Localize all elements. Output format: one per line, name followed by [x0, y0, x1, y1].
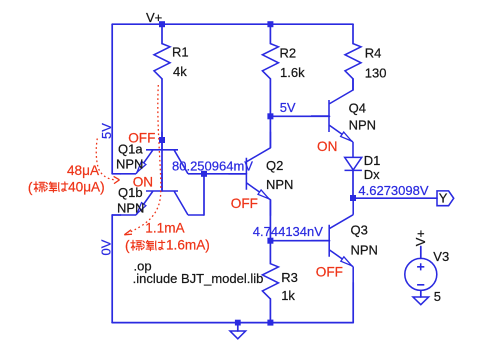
- output flag Y: [437, 191, 454, 206]
- svg-text:130: 130: [365, 66, 387, 81]
- wire R4 bottom lead: [352, 79, 354, 90]
- transistor Q3: [311, 199, 353, 283]
- kanji jun: [46, 182, 57, 192]
- svg-text:.include BJT_model.lib: .include BJT_model.lib: [133, 271, 264, 286]
- wire left input A (5V) vertical: [111, 24, 113, 174]
- svg-text:R3: R3: [281, 270, 298, 285]
- resistor R1: [154, 44, 170, 79]
- ground (V3): [413, 297, 429, 305]
- svg-text:V+: V+: [146, 10, 162, 25]
- svg-text:40μA): 40μA): [68, 180, 105, 195]
- wire ground bottom rail: [112, 322, 353, 324]
- resistor R4: [345, 44, 361, 79]
- wire Q2 emitter down to node: [269, 200, 271, 241]
- svg-text:OFF: OFF: [231, 196, 258, 211]
- transistor Q1a: [120, 132, 204, 174]
- svg-text:1.1mA: 1.1mA: [145, 221, 185, 236]
- svg-text:(: (: [28, 180, 33, 195]
- svg-text:4.744134nV: 4.744134nV: [253, 224, 323, 239]
- svg-text:D1: D1: [364, 153, 381, 168]
- wire Q3 emitter down: [352, 283, 354, 323]
- resistor R3: [262, 264, 278, 299]
- svg-text:NPN: NPN: [117, 200, 144, 215]
- node junction D1/Y/Q3 collector: [350, 195, 356, 201]
- node junction R2/Q2/Q4: [267, 113, 273, 119]
- wire R2 bottom lead to node: [269, 79, 271, 117]
- svg-text:48μA: 48μA: [67, 163, 100, 178]
- svg-text:5: 5: [434, 289, 441, 304]
- svg-text:5V: 5V: [99, 123, 114, 139]
- wire R3 top lead: [269, 241, 271, 264]
- svg-text:4k: 4k: [173, 64, 187, 79]
- wire D1 cathode to output node: [352, 170, 354, 199]
- svg-text:5V: 5V: [280, 100, 296, 115]
- svg-text:NPN: NPN: [116, 157, 143, 172]
- transistor Q2: [228, 132, 270, 216]
- node junction V+/R2: [267, 21, 273, 27]
- svg-text:R2: R2: [280, 46, 297, 61]
- wire R4 top lead: [352, 24, 354, 43]
- node junction gnd tap: [235, 320, 241, 326]
- svg-text:1.6mA): 1.6mA): [166, 238, 210, 253]
- svg-text:(: (: [125, 238, 130, 253]
- kana ha: [156, 240, 165, 250]
- svg-text:R4: R4: [365, 46, 382, 61]
- svg-text:80.250964mV: 80.250964mV: [172, 159, 253, 174]
- wire Q1b emitter to input B: [112, 214, 120, 216]
- svg-text:R1: R1: [172, 45, 189, 60]
- node junction Q1 collectors: [201, 171, 207, 177]
- wire node to Q3 base: [270, 240, 329, 242]
- svg-text:0V: 0V: [98, 239, 113, 255]
- node junction Q2e/R3/Q3 base: [267, 238, 273, 244]
- svg-text:Q4: Q4: [349, 101, 366, 116]
- wire V+ top rail: [112, 23, 353, 25]
- dotted arrow base current 1.1mA: [128, 85, 161, 233]
- wire R3 bottom lead: [269, 299, 271, 323]
- svg-text:OFF: OFF: [316, 264, 343, 279]
- transistor Q1b: [120, 173, 204, 215]
- svg-text:V3: V3: [433, 249, 449, 264]
- node junction Q1a base: [159, 137, 165, 143]
- node junction V+/R1: [159, 21, 165, 27]
- ground (bottom rail): [230, 323, 246, 339]
- svg-text:Dx: Dx: [364, 167, 380, 182]
- svg-text:Q2: Q2: [266, 158, 283, 173]
- wire Q1b collector up to node: [203, 174, 205, 215]
- wire R1 top lead: [161, 24, 163, 43]
- diode D1: [345, 157, 362, 170]
- dotted arrow input current: [96, 139, 115, 181]
- wire output node to Y flag: [353, 197, 437, 199]
- wire Q1 collectors node to Q2 base: [204, 173, 246, 175]
- kana ha: [59, 182, 68, 192]
- svg-text:1k: 1k: [281, 288, 295, 303]
- wire R2 top lead: [269, 24, 271, 43]
- svg-text:NPN: NPN: [349, 118, 376, 133]
- node junction R3 bottom: [267, 320, 273, 326]
- svg-text:1.6k: 1.6k: [280, 65, 305, 80]
- kanji jun: [143, 241, 154, 251]
- svg-text:OFF: OFF: [128, 130, 155, 145]
- annotation (standard 40uA): [28, 180, 105, 195]
- svg-text:V+: V+: [413, 230, 428, 246]
- kanji hyou: [34, 182, 45, 192]
- svg-text:NPN: NPN: [351, 242, 378, 257]
- wire left input B (0V) vertical: [111, 215, 113, 323]
- svg-text:NPN: NPN: [266, 177, 293, 192]
- svg-text:4.6273098V: 4.6273098V: [358, 183, 428, 198]
- svg-text:Q3: Q3: [351, 223, 368, 238]
- resistor R2: [262, 44, 278, 79]
- transistor Q4: [311, 79, 353, 159]
- annotation (standard 1.6mA): [125, 238, 210, 253]
- wire node to Q4 base: [270, 115, 329, 117]
- wire Q2 collector to node: [269, 116, 271, 148]
- voltage source V3: [405, 247, 437, 298]
- svg-text:ON: ON: [317, 139, 337, 154]
- kanji hyou: [131, 240, 142, 250]
- svg-text:Y: Y: [439, 191, 448, 206]
- svg-text:ON: ON: [133, 174, 153, 189]
- wire R1 bottom to Q1 bases: [161, 79, 163, 191]
- wire Q1a emitter to input A: [112, 173, 120, 175]
